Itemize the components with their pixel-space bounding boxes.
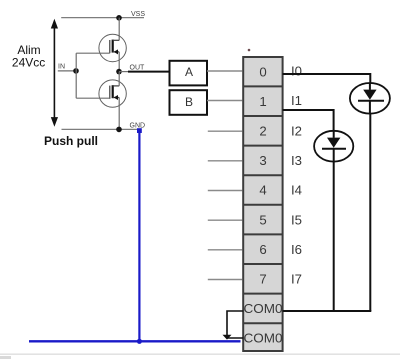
svg-text:4: 4 [259, 183, 266, 198]
svg-text:6: 6 [259, 242, 266, 257]
svg-text:I0: I0 [291, 63, 302, 78]
wire: D2 cathode down to COM rail [333, 161, 335, 311]
svg-text:5: 5 [259, 212, 266, 227]
wire: drain of Q1 to VSS rail [118, 18, 120, 41]
svg-text:A: A [185, 65, 193, 79]
svg-text:COM0: COM0 [244, 301, 283, 316]
svg-text:COM0: COM0 [244, 331, 283, 346]
wire: Q2 source to GND rail [118, 98, 120, 130]
node: blue GND tap square [137, 128, 142, 133]
wire: gate lead of Q1 [76, 52, 110, 54]
node: OUT junction dot [116, 69, 122, 75]
svg-text:0: 0 [259, 64, 266, 79]
wire: D1 cathode down to COM rail [369, 113, 371, 311]
svg-text:2: 2 [259, 123, 266, 138]
wire: OUT to box A (black) [128, 71, 170, 73]
wire: Q1 source to OUT node [118, 52, 120, 72]
wire: blue vertical to 0V bus [138, 131, 140, 342]
svg-text:I3: I3 [291, 153, 302, 168]
wire: COM0 upper to loop (left side) [227, 311, 243, 338]
transistor Q1 (top MOSFET of push-pull) [99, 34, 126, 61]
lamp/diode D2 [314, 131, 353, 162]
bottom-left corner smudge [0, 356, 11, 359]
svg-text:I5: I5 [291, 212, 302, 227]
svg-text:Push pull: Push pull [44, 134, 98, 148]
wire: pin 1 to lamp D2 (net I1) [283, 110, 334, 131]
transistor Q2 (bottom MOSFET of push-pull) [99, 80, 126, 107]
svg-text:I2: I2 [291, 123, 302, 138]
box A [170, 61, 208, 86]
node: GND junction dot [116, 127, 122, 133]
wire: OUT stub (grey) [119, 71, 129, 73]
wire: stub to connector pin 6 [208, 249, 242, 251]
svg-text:1: 1 [259, 94, 266, 109]
wire: stub to connector pin 3 [208, 160, 242, 162]
wire: stub to connector pin 5 [208, 219, 242, 221]
svg-text:I4: I4 [291, 183, 302, 198]
wire: VSS top rail [61, 17, 144, 19]
svg-text:3: 3 [259, 153, 266, 168]
node: VSS junction dot [116, 15, 122, 21]
svg-text:B: B [185, 95, 193, 109]
wire: GND rail [62, 128, 140, 130]
wire: gate lead of Q2 [76, 97, 110, 99]
svg-text:24Vcc: 24Vcc [12, 55, 45, 69]
svg-text:7: 7 [259, 272, 266, 287]
svg-text:VSS: VSS [131, 11, 145, 18]
lamp/diode D1 [350, 83, 390, 114]
node: IN junction dot [73, 68, 79, 74]
wire: box A to connector pin 0 [207, 70, 242, 72]
wire: stub to connector pin 2 [208, 130, 242, 132]
wire: blue 0V bus horizontal [29, 340, 241, 342]
box B [170, 90, 208, 115]
wire: box B to connector pin 1 [207, 100, 242, 102]
svg-text:I7: I7 [291, 272, 302, 287]
wire: gate bus vertical [75, 53, 77, 98]
bottom window edge line [0, 353, 400, 355]
wire: pin 0 to lamp D1 (net I0) [283, 74, 371, 83]
tiny red marker dot [248, 49, 251, 52]
svg-text:OUT: OUT [130, 65, 146, 72]
measurement arrow Alim 24Vcc (double-headed) [51, 19, 58, 127]
svg-text:IN: IN [58, 64, 65, 71]
node: junction arrow at blue bus tap [223, 335, 232, 340]
wire: stub to connector pin 4 [208, 190, 242, 192]
svg-text:I1: I1 [291, 93, 302, 108]
wire: COM0 right rail (horizontal) [283, 310, 372, 312]
wire: stub to connector pin 7 [208, 279, 242, 281]
wire: IN lead [58, 70, 76, 72]
wire: OUT node to Q2 drain [118, 72, 120, 86]
node: blue junction dot on 0V bus [137, 339, 142, 344]
connector terminal block (inputs 0-7, COM0, COM0) [243, 57, 282, 351]
svg-text:I6: I6 [291, 242, 302, 257]
